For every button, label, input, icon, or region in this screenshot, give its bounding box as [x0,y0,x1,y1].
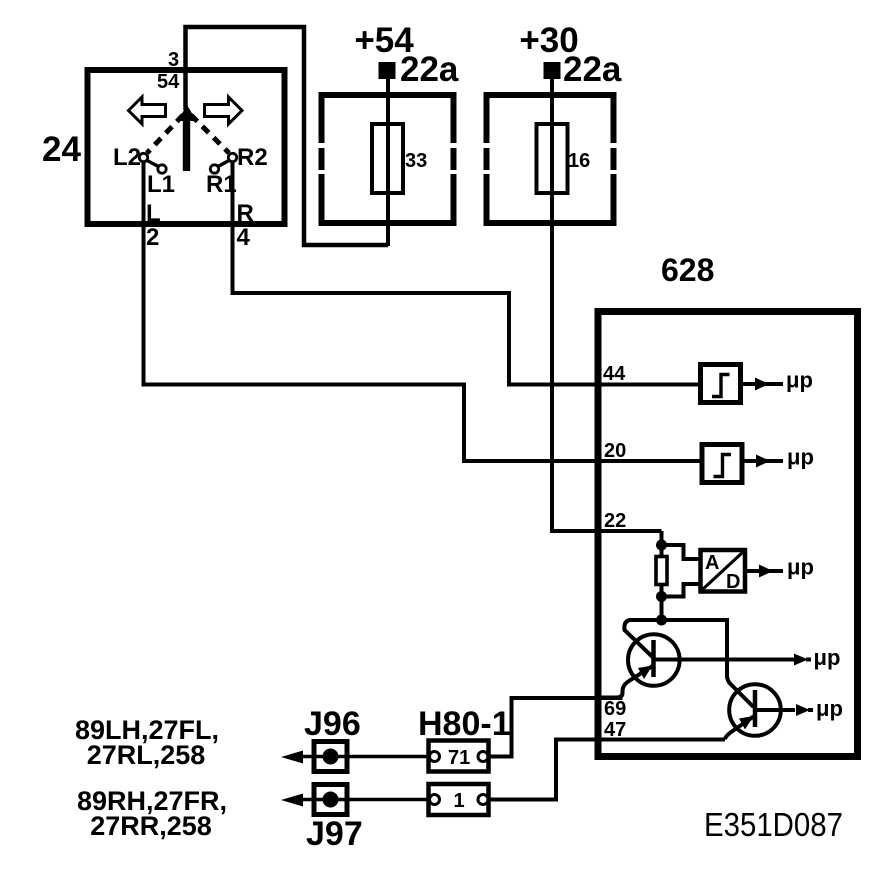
connector H80-1 pin 71 [429,741,489,772]
connector H80-1 pin 1 [429,784,489,815]
connector J97 [314,785,347,815]
svg-text:A: A [705,552,719,574]
output arrow U1 to microprocessor [743,382,783,386]
svg-text:J96: J96 [304,705,361,743]
svg-text:μp: μp [787,555,814,580]
svg-text:54: 54 [157,71,180,93]
svg-text:μp: μp [787,445,814,470]
contact L2 [139,153,147,161]
svg-text:μp: μp [786,368,813,393]
node C (junction feeding transistors) [656,615,667,626]
svg-text:2: 2 [146,224,159,251]
svg-text:R2: R2 [237,144,268,171]
transistor Q1 [628,634,680,686]
wire H80-1 pin 1 to control unit pin 47 [489,740,725,800]
svg-text:μp: μp [814,645,841,670]
wire node C to transistor bases [662,620,728,678]
svg-text:27RR,258: 27RR,258 [90,811,212,841]
svg-text:628: 628 [661,252,714,288]
terminal square +54 [379,62,396,79]
svg-text:R: R [237,200,254,227]
svg-text:4: 4 [237,224,251,251]
wire from fuse 33 to switch feed (pin 3/54) [186,27,389,245]
svg-text:24: 24 [42,130,81,169]
connector J96 [314,742,347,772]
svg-text:20: 20 [604,440,626,462]
wire H80-1 pin 71 to control unit pin 69 [489,698,623,757]
svg-text:E351D087: E351D087 [704,806,843,843]
svg-text:μp: μp [816,696,843,721]
svg-text:L2: L2 [113,144,141,171]
fuse box 16 dashed enclosure [484,92,617,226]
lever travel dashed line left [147,115,183,153]
fuse 16 body [537,124,568,193]
wire J96 row with arrow [300,755,430,759]
svg-text:H80-1: H80-1 [418,705,511,743]
wire from +30 through fuse 16 to pin 22 [552,79,662,531]
wire node B to A/D bottom input [662,584,701,597]
wire pin2/L to control unit pin 20 [144,162,701,461]
contact R1 [210,165,218,173]
transistor Q2 [729,684,781,736]
fuse box 33 dashed enclosure [319,92,457,226]
svg-text:27RL,258: 27RL,258 [87,740,206,770]
contact L1 [158,165,166,173]
svg-text:J97: J97 [306,815,363,853]
wire node A to A/D top input [662,545,701,559]
wire pin4/R to control unit pin 44 [233,162,700,385]
left direction arrow [129,97,166,124]
svg-text:1: 1 [454,790,465,812]
svg-text:22: 22 [604,510,626,532]
arrow to microprocessor (Q1) [794,654,808,666]
svg-text:3: 3 [168,49,179,71]
switch lever [178,105,197,121]
svg-text:33: 33 [405,150,427,172]
switch 24 enclosure box [88,70,285,224]
Q1 emitter with arrow to pin 69 [598,666,653,698]
svg-text:44: 44 [603,363,626,385]
Q2 collector from node C [727,675,754,707]
wire J97 row with arrow [300,798,430,802]
wire through fuse 33 [386,79,390,246]
resistor R1 [656,557,667,585]
terminal square +30 [544,62,561,79]
svg-text:71: 71 [448,747,470,769]
node B (junction bottom of resistor) [660,585,664,620]
svg-text:16: 16 [568,150,590,172]
svg-text:D: D [726,571,740,593]
lever travel dashed line right [191,115,229,153]
arrow to microprocessor (Q2) [796,704,810,716]
svg-text:L1: L1 [147,171,175,198]
svg-text:22a: 22a [563,50,622,89]
contact bridge R1-R2 [218,161,229,167]
contact bridge L2-L1 [147,161,159,167]
output arrow U3 to microprocessor [745,569,783,573]
svg-text:L: L [146,200,161,227]
output arrow U2 to microprocessor [744,459,783,463]
control unit 628 box [598,312,858,757]
node A (junction top of resistor) [660,531,664,559]
schmitt trigger U1 (pin 44) [701,365,741,403]
Q2 emitter to pin 47 [725,717,754,740]
A/D converter U3 [701,550,746,592]
contact R2 [228,153,236,161]
schmitt trigger U2 (pin 20) [702,445,742,483]
fuse 33 body [372,124,403,193]
svg-text:22a: 22a [400,50,459,89]
svg-text:69: 69 [604,698,626,720]
right direction arrow [205,97,243,124]
